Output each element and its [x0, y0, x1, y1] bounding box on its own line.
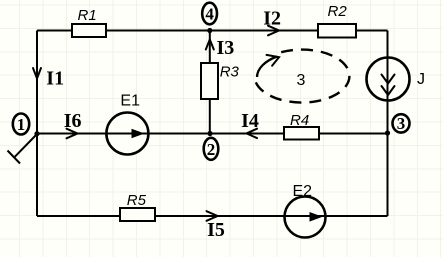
- svg-text:R1: R1: [78, 7, 97, 24]
- svg-text:3: 3: [297, 72, 306, 89]
- svg-text:R3: R3: [220, 64, 240, 81]
- svg-text:I4: I4: [241, 110, 259, 132]
- svg-text:E2: E2: [293, 183, 313, 200]
- svg-text:R2: R2: [328, 3, 348, 20]
- svg-text:R4: R4: [290, 112, 309, 129]
- svg-text:I2: I2: [263, 7, 281, 29]
- svg-text:I3: I3: [217, 37, 235, 59]
- svg-text:J: J: [417, 71, 425, 88]
- svg-text:I6: I6: [64, 110, 82, 132]
- svg-text:E1: E1: [120, 93, 140, 110]
- svg-text:2: 2: [207, 140, 216, 159]
- svg-text:3: 3: [397, 114, 406, 133]
- svg-text:4: 4: [205, 5, 214, 24]
- svg-text:R5: R5: [127, 192, 147, 209]
- svg-text:I5: I5: [207, 219, 225, 241]
- svg-text:1: 1: [17, 115, 26, 134]
- svg-text:I1: I1: [46, 68, 64, 90]
